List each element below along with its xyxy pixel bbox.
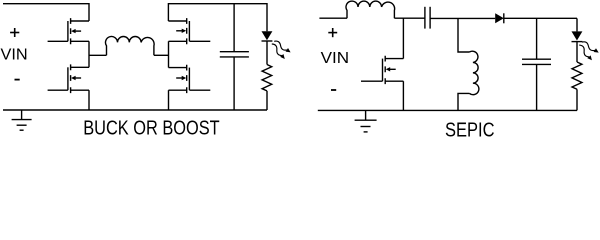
wire inductor right lead (154, 54, 169, 56)
node VIN- minus sign (SEPIC) (331, 89, 336, 91)
capacitor C3 (SEPIC output cap) (522, 59, 551, 64)
wire top node to Q5 drain (402, 18, 404, 58)
capacitor C1 (output cap buck/boost) (220, 52, 249, 57)
ground (buck/boost) (12, 110, 32, 130)
wire Q3 source to Q4 drain (switch node right) (168, 41, 170, 67)
transistor Q1 (top-left MOSFET) (48, 18, 89, 44)
wire L1 to coupling cap (394, 17, 425, 19)
wire resistor to ground rail (266, 91, 268, 110)
svg-text:SEPIC: SEPIC (445, 120, 495, 142)
inductor L2 (SEPIC shunt) (470, 51, 479, 94)
wire Q2 source to ground rail (88, 90, 90, 110)
node VIN- minus sign (buck/boost) (15, 79, 20, 81)
wire output to LED anode (576, 18, 578, 31)
transistor Q2 (bottom-left MOSFET) (48, 64, 89, 93)
ground (SEPIC) (355, 110, 377, 131)
node VIN+ plus sign (buck/boost) (10, 28, 19, 37)
wire diode cathode to output (504, 17, 577, 19)
diode D2 (SEPIC) (495, 13, 504, 23)
wire Q5 source to ground rail (402, 81, 404, 110)
LED D1 (buck/boost) (262, 31, 292, 60)
node VIN+ plus sign (SEPIC) (328, 28, 337, 37)
wire ground rail (SEPIC) (318, 109, 577, 111)
capacitor C2 (SEPIC coupling cap) (425, 7, 430, 29)
capacitor C3 bottom lead (536, 64, 538, 110)
capacitor C3 top lead (536, 18, 538, 59)
wire ground rail (buck/boost) (3, 109, 267, 111)
inductor L1 (buck/boost) (106, 36, 155, 55)
inductor L1 (SEPIC series input) (346, 1, 395, 18)
resistor R1 (buck/boost) (262, 65, 272, 91)
svg-text:VIN: VIN (1, 47, 28, 64)
transistor Q4 (bottom-right MOSFET, mirrored) (169, 65, 211, 93)
wire Q4 source to ground rail (168, 90, 170, 110)
wire VIN+ input lead (SEPIC) (319, 17, 347, 19)
wire Q1 source to Q2 drain (switch node left) (88, 41, 90, 67)
wire resistor to ground rail (576, 89, 578, 110)
capacitor C1 bottom lead (233, 57, 235, 110)
capacitor C1 top lead (233, 4, 235, 52)
wire output top rail (buck/boost) (168, 4, 267, 32)
svg-text:BUCK OR BOOST: BUCK OR BOOST (83, 118, 220, 140)
transistor Q3 (top-right MOSFET, mirrored) (168, 18, 210, 44)
wire VIN+ top rail (buck/boost) (3, 4, 89, 21)
LED D3 (SEPIC) (572, 31, 600, 61)
wire top node to inductor L2 (458, 18, 470, 52)
resistor R2 (SEPIC) (572, 62, 582, 89)
wire LED cathode to resistor (266, 41, 268, 65)
wire L2 bottom lead to ground rail (458, 93, 470, 110)
wire LED cathode to resistor (576, 42, 578, 62)
wire inductor left lead (89, 54, 107, 56)
transistor Q5 (SEPIC switch) (361, 56, 403, 84)
wire coupling cap to diode (430, 17, 495, 19)
svg-text:VIN: VIN (321, 50, 350, 67)
